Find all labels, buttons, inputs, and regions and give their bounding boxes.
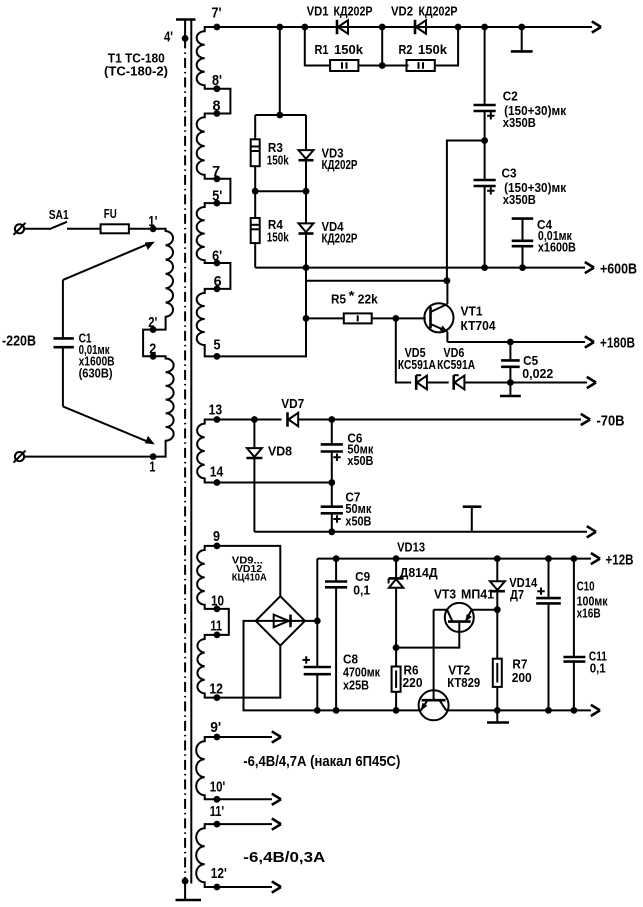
svg-text:Д814Д: Д814Д [400,565,439,580]
heater winding 9'-10' [196,737,217,799]
wire pin 12 to bridge bottom [217,646,280,698]
node 10 [214,606,221,613]
chassis bar top of screen [176,18,196,21]
node +600 C3 [481,264,488,271]
resistor R4 [251,191,290,267]
node top rail R1/R2 mid [379,24,386,31]
svg-text:220: 220 [403,675,423,690]
svg-text:22k: 22k [358,292,379,307]
wire pin13 line [217,419,282,421]
resistor R3 [251,115,290,191]
capacitor C5 [501,342,553,383]
svg-text:-220В: -220В [2,333,36,350]
svg-text:х350В: х350В [503,192,536,207]
transformer core [190,21,192,884]
capacitor C10 [536,559,608,711]
transistor VT3 [434,587,498,632]
node bottom rail R7 [494,707,501,714]
node bottom rail C8 [314,707,321,714]
svg-text:4': 4' [164,29,173,46]
svg-text:12: 12 [209,681,223,698]
wire drop to divider box [279,27,281,115]
wire heater 12' arrow [217,886,272,888]
node top rail to divider box [276,24,283,31]
node VD8 branch [251,416,258,423]
wire collector link line [306,280,447,282]
node collector link right [444,277,451,284]
svg-text:C2: C2 [503,89,518,104]
zener VD5 [398,345,449,390]
svg-text:+12В: +12В [606,551,634,568]
svg-text:0,1: 0,1 [353,583,370,598]
screen winding lead (dash-dot) [184,20,186,900]
arrow zener line output [587,377,596,388]
node +600 VD4 column [303,264,310,271]
node 1' [150,225,157,232]
diode VD3 [299,115,358,191]
svg-text:VD8: VD8 [268,443,292,458]
arrow -70V [581,414,590,425]
node bottom rail C10 [545,707,552,714]
node top rail R1 left [301,24,308,31]
wire heater 9' arrow [217,736,272,738]
wire selector arrow lower [63,406,150,442]
wire top rail from pin 7' [217,26,592,28]
resistor R1 [305,27,382,71]
zener VD13 [389,540,439,648]
svg-text:-6,4В/4,7А (накал 6П45С): -6,4В/4,7А (накал 6П45С) [243,753,400,770]
svg-text:(630В): (630В) [79,366,113,381]
chassis below bottom rail [487,710,509,722]
svg-text:2': 2' [148,314,157,331]
node 7 [214,175,221,182]
svg-text:КС591А: КС591А [398,357,436,372]
svg-text:FU: FU [104,206,117,221]
node 10' [214,796,221,803]
svg-text:КЦ410А: КЦ410А [232,573,267,584]
svg-text:МП41: МП41 [461,587,494,602]
node 6 [214,286,221,293]
wire heater 10' arrow [217,798,272,800]
primary winding lower 2-1 [153,356,174,456]
node 11' [214,821,221,828]
svg-text:C3: C3 [502,166,517,181]
secondary winding 6-5 [197,289,217,357]
svg-text:SA1: SA1 [49,207,69,222]
svg-text:VD1: VD1 [307,4,329,19]
svg-text:150k: 150k [267,230,290,245]
node 2 [150,353,157,360]
node 4' terminal dot [182,35,189,42]
node top rail VD14 [494,555,501,562]
node 12' [214,884,221,891]
diode VD1 [307,4,373,35]
node zener line C5 [507,379,514,386]
node -70 line C6 [328,416,335,423]
node R5 line left [303,315,310,322]
wire jog 2'-2 [143,330,153,357]
diode VD7 [281,396,581,427]
svg-text:VT3: VT3 [434,587,456,602]
wire jog 10-11 [217,609,229,635]
capacitor C6 [321,420,374,483]
svg-text:(ТС-180-2): (ТС-180-2) [104,64,168,79]
resistor R7 [493,610,532,711]
svg-text:х16В: х16В [577,606,601,621]
wire bridge plus to C8 [305,620,317,622]
svg-text:+600В: +600В [600,260,637,277]
node 14 line C6/C7 [328,479,335,486]
node bottom rail C9 [333,707,340,714]
node R1-R2 branch mid [379,62,386,69]
node 8 [214,110,221,117]
node top rail C11 [571,555,578,562]
chassis top right [511,27,533,51]
heater winding 11'-12' [196,824,217,887]
svg-text:150k: 150k [334,42,364,57]
svg-text:КД202Р: КД202Р [322,231,358,246]
node VD14 R7 VT3 emitter [494,606,501,613]
secondary winding 13-14 [197,420,217,483]
arrow +12V [591,553,600,564]
transistor VT1 [424,281,496,342]
svg-text:9': 9' [210,719,221,736]
wire +600 down to R5 and pin 5 [217,268,306,357]
resistor R5 [306,288,426,323]
wire R2 riser mid [381,27,383,66]
svg-text:КД202Р: КД202Р [322,157,358,172]
svg-text:-6,4В/0,3А: -6,4В/0,3А [243,849,325,866]
svg-text:VD7: VD7 [281,396,304,411]
node divider box top [276,112,283,119]
resistor R2 [382,27,458,71]
wire divider box top [255,114,306,116]
svg-text:х50В: х50В [345,513,371,528]
svg-text:R2: R2 [399,42,413,57]
node C2-C3 midpoint [481,137,488,144]
node bridge plus C8 column [314,618,321,625]
svg-text:R1: R1 [315,42,329,57]
svg-text:150k: 150k [418,42,448,57]
arrow doubler output [587,526,596,537]
svg-text:R5: R5 [331,292,346,307]
node 6' [214,260,221,267]
capacitor C1 [54,280,115,407]
svg-text:11': 11' [210,803,225,820]
svg-text:6': 6' [212,248,222,265]
capacitor C7 [321,483,372,532]
svg-text:7': 7' [212,5,222,22]
wire heater 11' arrow [217,823,272,825]
secondary winding 7'-8' [197,27,217,89]
wire bottom mains [24,456,153,458]
wire jog 6'-6 [217,263,231,289]
primary winding upper 1'-2' [153,229,173,330]
svg-text:11: 11 [210,618,222,635]
node top rail chassis stub [518,24,525,31]
svg-text:КД202Р: КД202Р [419,4,458,19]
svg-text:1': 1' [148,213,157,230]
wire midpoint to VT1 collector column [447,141,485,281]
node 12 [214,694,221,701]
svg-text:КТ704: КТ704 [461,318,497,333]
chassis above doubler line [463,507,482,532]
wire jog 7-5' [217,179,231,203]
capacitor C4 with chassis top [512,217,576,268]
svg-text:6: 6 [214,273,222,290]
mains terminal top [14,223,26,235]
svg-text:0,022: 0,022 [522,366,553,381]
secondary winding 9-10 [197,546,217,609]
node 8' [214,85,221,92]
svg-text:C10: C10 [577,579,595,594]
wire pin 9 to bridge top [217,546,280,596]
node bottom rail R6 [393,707,400,714]
arrow 12V return [591,705,600,716]
svg-text:8: 8 [213,98,221,115]
node 9' [214,734,221,741]
arrow top rail output [592,21,601,32]
wire divider box mid [255,190,306,192]
svg-text:5: 5 [214,337,221,354]
transistor VT2 [419,610,481,721]
wire doubler output line [254,531,587,533]
wire VT3 base link [396,622,459,648]
wire +12 top rail [317,558,591,560]
svg-text:14: 14 [210,464,224,481]
node box mid right [303,188,310,195]
chassis below C5 [500,383,521,397]
svg-text:9: 9 [213,528,220,545]
fuse FU [101,206,129,233]
node +600 C4 [519,264,526,271]
svg-text:VT1: VT1 [461,304,483,319]
capacitor C9 [325,559,370,711]
wire +600V line [255,267,585,269]
capacitor C3 [474,141,567,268]
node top rail C2 [481,24,488,31]
svg-text:10': 10' [210,778,226,795]
svg-text:0,1: 0,1 [590,661,606,676]
node 11 [214,632,221,639]
svg-text:7: 7 [212,163,220,180]
svg-text:КТ829: КТ829 [447,675,480,690]
svg-text:КС591А: КС591А [437,357,475,372]
wire fuse to pin 1' [129,228,153,230]
arrow +180V [585,336,594,347]
svg-text:2: 2 [149,341,156,358]
svg-text:х25В: х25В [343,678,369,693]
node 7' [214,24,221,31]
wire jog 8'-8 [217,89,231,114]
node 9 [214,543,221,550]
svg-text:150k: 150k [267,153,290,168]
svg-text:200: 200 [512,670,532,685]
node bottom rail C11 [571,707,578,714]
transformer T1 label [104,51,168,79]
capacitor C2 [474,27,567,141]
svg-text:12': 12' [211,865,227,882]
resistor R6 [392,648,423,711]
node box mid left [252,188,259,195]
node 2' [150,326,157,333]
node 1 [150,453,157,460]
node +180 C5 [507,339,514,346]
wire bottom rail right segment [446,709,591,711]
wire switch to fuse [67,228,101,230]
svg-text:10: 10 [211,592,224,609]
svg-text:Д7: Д7 [510,587,524,602]
zener VD6 [437,345,587,390]
wire zener line from base [396,318,411,382]
svg-text:КД202Р: КД202Р [334,4,373,19]
node top rail C9 [333,555,340,562]
wire +180V line [447,341,585,343]
wire bridge minus to bottom rail [244,621,421,711]
secondary winding 8-7 [197,114,217,179]
node C7 bottom [328,528,335,535]
node 5 [214,353,221,360]
secondary winding 5'-6' [197,203,217,263]
svg-text:х1600В: х1600В [538,239,576,254]
wire selector arrow upper [63,243,150,280]
diode VD2 [391,4,458,35]
wire mains to switch [24,228,49,230]
node VD13 R6 VT3 base [393,644,400,651]
mains terminal bottom [14,451,26,463]
svg-text:х50В: х50В [347,453,373,468]
svg-text:+180В: +180В [600,335,635,352]
node 13 [214,416,221,423]
wire pin14 line [217,482,332,484]
secondary winding 11-12 [197,635,216,698]
svg-text:VD2: VD2 [391,4,413,19]
diode VD4 [299,191,358,267]
svg-text:х350В: х350В [503,115,536,130]
node top rail C10 [545,555,552,562]
bridge rectifier VD9...VD12 [232,556,305,646]
svg-text:1: 1 [149,459,155,476]
diode VD14 [490,559,538,610]
capacitor C8 [303,559,381,711]
node top rail VD13 [393,555,400,562]
diode VD8 [246,420,292,532]
ground bottom of screen [182,878,189,885]
capacitor C11 [563,559,607,711]
svg-text:13: 13 [209,402,223,419]
switch SA1 [49,207,69,230]
arrow +600V [585,262,594,273]
node VT1 base / zener branch [392,315,399,322]
svg-text:-70В: -70В [597,413,625,430]
node 5' [214,200,221,207]
svg-text:5': 5' [212,188,222,205]
svg-text:VD13: VD13 [397,540,425,555]
svg-text:8': 8' [212,72,222,89]
node 14 [214,479,221,486]
node top rail R2 right [455,24,462,31]
